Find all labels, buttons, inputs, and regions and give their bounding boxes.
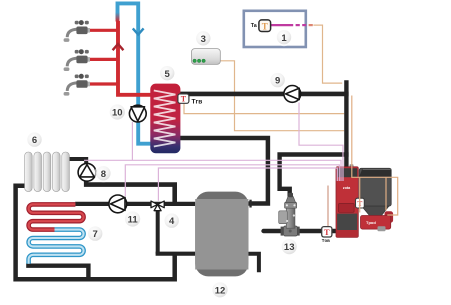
wire: pink control line pump9 — [299, 103, 343, 182]
pipe: floor-coil return step — [26, 266, 88, 280]
pipe: radiator return left drop and bottom return run — [16, 186, 175, 279]
pipe: buffer tank to valve13 and boiler bottom return — [264, 229, 337, 233]
wire: pink control bus line C (valve4) — [158, 168, 337, 201]
svg-text:Tpod: Tpod — [366, 220, 376, 225]
svg-text:1: 1 — [281, 33, 287, 44]
pipe: faucet branch 2 — [86, 58, 118, 61]
thermostat Ta — [251, 20, 271, 32]
label 10 — [108, 103, 126, 121]
svg-text:T: T — [324, 228, 330, 237]
pipe: valve4 bottom drop — [156, 206, 160, 254]
svg-text:9: 9 — [275, 76, 280, 87]
label 13 — [280, 238, 298, 256]
pipe: boiler branch to valve13 — [280, 155, 349, 199]
faucet F3 — [64, 74, 90, 96]
wire: thermostat-to-boiler tan cable — [313, 25, 342, 83]
wire: thermostat magenta line — [271, 24, 307, 26]
svg-text:7: 7 — [93, 229, 98, 240]
wire: pink control bus line B (pump11) — [125, 165, 339, 197]
pipe: DHW cold recirculation loop (blue) — [118, 3, 151, 143]
valve 13 (thermostatic loading valve group) — [279, 193, 300, 236]
svg-text:12: 12 — [215, 285, 226, 296]
flow arrow on blue drop — [133, 28, 144, 34]
label 3 — [194, 29, 212, 47]
svg-text:8: 8 — [101, 169, 106, 180]
pipe: DHW hot riser (red) — [118, 21, 151, 95]
pipe: buffer tank drain stub — [248, 254, 259, 273]
pipe: boiler supply horizontal (tank5 to boiler riser) — [180, 92, 349, 97]
sensor Tpod between boiler and hopper — [356, 198, 365, 208]
svg-text:11: 11 — [128, 215, 139, 226]
label 7 — [86, 225, 104, 243]
label 4 — [163, 212, 181, 230]
svg-text:3: 3 — [201, 34, 206, 45]
pipe: boiler riser vertical — [344, 80, 348, 168]
faucet F2 — [64, 49, 90, 71]
label 6 — [26, 131, 44, 149]
sensor Tcw on tank 5 — [178, 94, 202, 106]
boiler auger burner unit — [361, 211, 394, 231]
flow arrow on hot riser — [113, 44, 124, 50]
svg-text:5: 5 — [165, 69, 171, 80]
pipe: return into buffer tank lower port — [156, 252, 196, 256]
valve 4 (3-way mixing valve) — [151, 201, 164, 211]
fitting: buffer tank right stub flange — [249, 200, 251, 208]
radiator 6 — [25, 152, 70, 192]
pipe: tank5 bottom outlet to buffer tank top port — [180, 138, 268, 204]
svg-text:T: T — [262, 21, 268, 31]
boiler (solid fuel pellet boiler) — [336, 164, 358, 237]
svg-text:Ta: Ta — [251, 23, 258, 29]
label 1 — [275, 28, 293, 46]
room zone box 1 — [244, 11, 306, 47]
wire: boiler sensor loop tan cable — [352, 96, 398, 216]
label 11 — [124, 210, 142, 228]
svg-text:13: 13 — [284, 242, 295, 253]
pump 9 (boiler circuit) — [284, 86, 301, 103]
label 8 — [94, 164, 112, 182]
pipe: faucet branch 3 — [86, 82, 118, 85]
pump 11 (floor circuit) — [109, 195, 127, 213]
svg-text:10: 10 — [112, 108, 123, 119]
wire: Tcw sensor orange cable — [184, 103, 344, 113]
svg-text:4: 4 — [169, 216, 175, 227]
wire: pink control bus line A (pump10 / pump8) — [84, 122, 341, 181]
svg-text:Tгв: Tгв — [192, 99, 203, 106]
svg-text:T: T — [181, 95, 187, 104]
pipe: faucet branch 1 — [86, 29, 118, 32]
label 9 — [269, 71, 287, 89]
svg-text:Tов: Tов — [322, 238, 330, 243]
pipe: mixing line through pump11 and valve4 to buffer tank — [75, 202, 195, 206]
boiler pellet hopper — [359, 168, 391, 206]
sensor Tov on return pipe — [322, 227, 332, 243]
floor heating coil 7 (blue return part) — [29, 230, 84, 264]
wire: Tov sensor orange cable — [327, 186, 329, 227]
wire: controller-3 orange cable — [220, 61, 344, 131]
faucet F1 — [64, 20, 90, 42]
tank 5 (DHW coil tank) — [150, 84, 180, 154]
controller 3 — [192, 49, 221, 65]
boiler hopper funnel — [362, 206, 390, 216]
floor heating coil 7 (red supply part) — [29, 204, 84, 229]
svg-text:zota: zota — [343, 186, 351, 190]
red/blue transition on riser — [116, 13, 120, 22]
label 12 — [211, 281, 229, 299]
pipe: radiator top stub into pump8 — [69, 159, 86, 166]
pump 10 (DHW circulation) — [129, 105, 146, 122]
label 5 — [158, 64, 176, 82]
pump 8 (radiator circuit) — [78, 163, 96, 181]
pipe: pump8 outlet run and drop to mixing line — [86, 180, 175, 204]
buffer tank 12 — [195, 192, 248, 277]
svg-text:6: 6 — [32, 135, 37, 146]
